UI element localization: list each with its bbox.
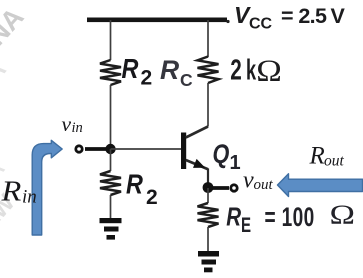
svg-text:E: E bbox=[241, 212, 251, 236]
node VCC label bbox=[226, 2, 345, 33]
wire: RC to collector bbox=[207, 83, 209, 127]
label RE = 100 Ω bbox=[226, 200, 355, 237]
resistor RC bbox=[198, 57, 219, 84]
svg-text:R: R bbox=[126, 170, 143, 200]
svg-text:v: v bbox=[62, 112, 72, 136]
svg-text:R: R bbox=[0, 175, 21, 207]
power rail VCC bbox=[87, 18, 227, 23]
node vin label bbox=[62, 112, 83, 136]
label Rout bbox=[309, 143, 345, 170]
label RC bbox=[160, 55, 193, 90]
wire: rail to RC bbox=[207, 20, 209, 57]
label R2 (upper) bbox=[122, 54, 153, 89]
watermark (decorative) bbox=[0, 2, 30, 236]
svg-text:k: k bbox=[246, 54, 257, 86]
svg-text:out: out bbox=[324, 153, 345, 170]
terminal vout bbox=[231, 185, 237, 191]
wire: vin to junction (thick) bbox=[85, 147, 108, 151]
label 2 kΩ value bbox=[230, 54, 281, 88]
svg-text:V: V bbox=[331, 4, 346, 28]
wire: emitter node to RE bbox=[207, 188, 209, 203]
wire: rail to R2 top bbox=[110, 20, 112, 60]
svg-text:2: 2 bbox=[141, 67, 153, 90]
wire: emitter node to vout (thick) bbox=[208, 186, 229, 190]
svg-text:in: in bbox=[72, 120, 83, 136]
svg-text:2: 2 bbox=[146, 186, 158, 209]
arrow Rin (blue) bbox=[32, 140, 62, 235]
node vout label bbox=[243, 168, 274, 194]
junction input node bbox=[105, 144, 115, 154]
svg-text:out: out bbox=[254, 177, 274, 193]
label Q1 bbox=[213, 140, 241, 174]
ground (left) bbox=[100, 218, 122, 240]
svg-text:Ω: Ω bbox=[330, 200, 355, 230]
svg-text:R: R bbox=[160, 55, 179, 85]
svg-text:= 2.5: = 2.5 bbox=[281, 4, 327, 28]
svg-text:CC: CC bbox=[249, 16, 273, 33]
svg-text:v: v bbox=[243, 168, 254, 194]
resistor RE bbox=[198, 203, 219, 227]
resistor R2 (lower) bbox=[100, 171, 121, 195]
wire: RE to ground bbox=[207, 227, 209, 252]
svg-text:in: in bbox=[22, 187, 37, 208]
arrow Rout (blue) bbox=[278, 174, 363, 197]
wire: R2 top to input junction bbox=[110, 85, 112, 149]
svg-text:= 100: = 100 bbox=[265, 202, 315, 232]
svg-text:R: R bbox=[226, 202, 241, 231]
label R2 (lower) bbox=[126, 170, 158, 209]
svg-text:1: 1 bbox=[230, 152, 241, 174]
svg-text:2: 2 bbox=[230, 54, 242, 86]
svg-text:C: C bbox=[180, 70, 193, 90]
wire: R2 lower to ground bbox=[110, 195, 112, 219]
resistor R2 (upper) bbox=[100, 60, 121, 85]
label Rin bbox=[0, 175, 36, 207]
junction emitter node bbox=[203, 182, 214, 193]
transistor Q1 bbox=[181, 127, 208, 186]
svg-text:R: R bbox=[122, 54, 139, 84]
ground (right) bbox=[198, 251, 219, 272]
wire: junction down to R2 lower bbox=[110, 149, 112, 171]
svg-text:Ω: Ω bbox=[256, 54, 282, 88]
wire: junction to base bbox=[111, 148, 182, 150]
svg-text:Q: Q bbox=[213, 140, 230, 170]
terminal vin bbox=[76, 146, 82, 152]
svg-text:R: R bbox=[309, 143, 325, 170]
